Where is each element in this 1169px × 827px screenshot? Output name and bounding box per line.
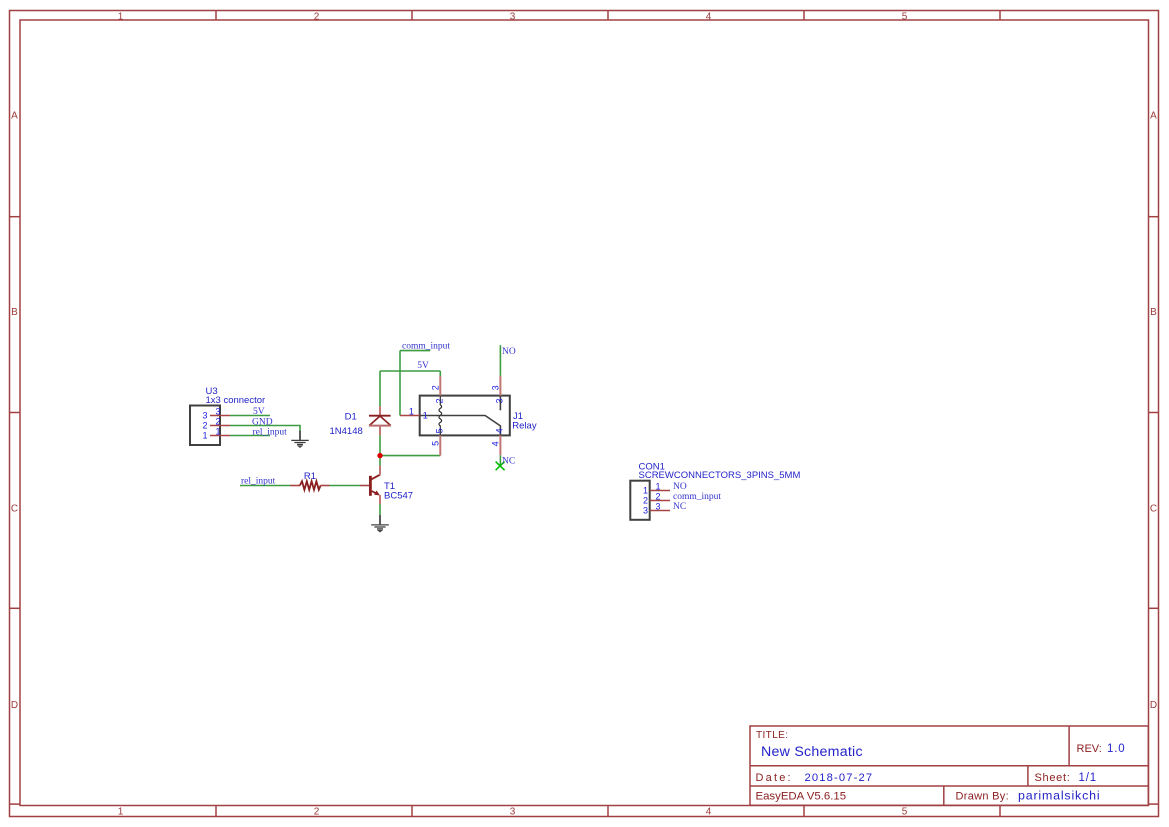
svg-text:5V: 5V — [417, 361, 429, 371]
U3 pin 3 — [210, 415, 230, 417]
svg-text:NO: NO — [502, 347, 516, 357]
J1 pin 5 — [439, 435, 441, 455]
connector U3 — [190, 386, 265, 445]
svg-text:EasyEDA V5.6.15: EasyEDA V5.6.15 — [756, 791, 847, 803]
svg-text:5V: 5V — [253, 407, 265, 417]
wire junction to relay pin 5 — [380, 455, 440, 457]
svg-text:parimalsikchi: parimalsikchi — [1018, 789, 1100, 803]
svg-text:GND: GND — [252, 417, 273, 427]
wire T1 collector to junction — [379, 456, 381, 466]
svg-text:comm_input: comm_input — [673, 492, 721, 502]
svg-text:5: 5 — [902, 12, 908, 23]
svg-text:D: D — [11, 700, 18, 711]
svg-text:3: 3 — [215, 407, 220, 417]
J1 pin 1 — [400, 415, 420, 417]
J1 switch arm — [420, 416, 501, 436]
svg-text:1: 1 — [409, 407, 414, 417]
resistor R1 — [290, 471, 330, 490]
D1 cathode pin — [379, 406, 381, 416]
svg-text:3: 3 — [510, 807, 516, 818]
svg-text:R1: R1 — [304, 471, 316, 482]
svg-text:A: A — [11, 111, 18, 122]
J1 pin 4 — [499, 435, 501, 455]
wire rel_input from U3 pin 1 — [230, 435, 270, 437]
svg-text:1x3 connector: 1x3 connector — [206, 395, 266, 406]
U3 box — [190, 406, 220, 446]
J1 pin 3 — [499, 376, 501, 396]
wire rel_input to R1 — [240, 485, 290, 487]
svg-text:3: 3 — [643, 506, 648, 516]
svg-text:1: 1 — [215, 427, 220, 437]
svg-text:D: D — [1150, 700, 1157, 711]
svg-text:2: 2 — [430, 385, 440, 390]
svg-text:4: 4 — [706, 12, 712, 23]
T1 collector diagonal — [371, 475, 380, 480]
svg-text:1: 1 — [202, 431, 207, 441]
node junction — [377, 453, 382, 458]
svg-text:3: 3 — [495, 398, 505, 403]
svg-text:comm_input: comm_input — [402, 342, 450, 352]
svg-text:B: B — [1150, 307, 1157, 318]
T1 base pin — [360, 485, 369, 487]
svg-text:B: B — [11, 307, 18, 318]
diode D1 — [330, 406, 391, 437]
svg-text:1: 1 — [655, 482, 660, 492]
U3 pin 1 — [210, 435, 230, 437]
svg-text:5: 5 — [902, 807, 908, 818]
svg-text:3: 3 — [491, 385, 501, 390]
svg-text:3: 3 — [510, 12, 516, 23]
wire T1 emitter to ground — [379, 504, 381, 515]
svg-text:1N4148: 1N4148 — [330, 426, 363, 437]
CON1 pin 2 — [650, 500, 670, 502]
svg-text:2: 2 — [655, 492, 660, 502]
svg-text:5: 5 — [431, 441, 441, 446]
svg-text:1: 1 — [423, 411, 428, 421]
wire GND from U3 pin 2 — [230, 426, 300, 432]
relay J1 — [400, 376, 537, 456]
svg-text:NC: NC — [673, 502, 686, 512]
wire diode bottom to junction — [379, 435, 381, 455]
svg-text:rel_input: rel_input — [253, 427, 288, 437]
svg-text:2: 2 — [314, 12, 320, 23]
svg-text:2018-07-27: 2018-07-27 — [805, 772, 874, 784]
T1 emitter diagonal — [372, 491, 379, 495]
svg-text:Drawn By:: Drawn By: — [956, 791, 1009, 803]
CON1 pin 1 — [650, 490, 670, 492]
wire NO to relay pin 3 — [499, 345, 501, 376]
transistor T1 — [360, 465, 413, 504]
R1 zigzag — [300, 481, 321, 490]
J1 box — [420, 396, 510, 436]
svg-text:New Schematic: New Schematic — [761, 744, 863, 760]
svg-text:SCREWCONNECTORS_3PINS_5MM: SCREWCONNECTORS_3PINS_5MM — [639, 470, 801, 481]
R1 lead right — [320, 485, 329, 487]
svg-text:5: 5 — [435, 428, 445, 433]
svg-text:C: C — [11, 504, 18, 515]
T1 base bar — [369, 476, 372, 496]
J1 pin 3 inner stub — [499, 396, 501, 411]
svg-text:REV:: REV: — [1077, 743, 1102, 755]
svg-text:1: 1 — [643, 486, 648, 496]
svg-text:2: 2 — [314, 807, 320, 818]
svg-text:1.0: 1.0 — [1107, 743, 1125, 755]
J1 pin 2 — [439, 376, 441, 396]
svg-text:1: 1 — [118, 12, 124, 23]
svg-text:2: 2 — [202, 421, 207, 431]
svg-text:3: 3 — [202, 411, 207, 421]
svg-text:3: 3 — [655, 502, 660, 512]
D1 triangle — [369, 416, 391, 426]
T1 emitter pin — [379, 495, 381, 504]
wire relay pin 4 to NC — [499, 455, 501, 466]
ground symbol near U3 — [291, 431, 309, 448]
svg-text:A: A — [1150, 111, 1157, 122]
svg-text:C: C — [1150, 504, 1157, 515]
D1 anode pin — [379, 426, 381, 436]
wire 5V horizontal — [380, 370, 440, 372]
wire comm_input horizontal — [400, 350, 430, 352]
svg-text:Relay: Relay — [512, 421, 537, 432]
no-connect flag NC — [496, 462, 505, 471]
wire 5V to relay pin 2 — [439, 371, 441, 376]
svg-text:Sheet:: Sheet: — [1035, 772, 1071, 784]
wire diode top riser — [379, 371, 381, 406]
svg-text:4: 4 — [490, 441, 500, 446]
svg-text:1: 1 — [118, 807, 124, 818]
svg-text:Date:: Date: — [756, 772, 793, 784]
svg-text:rel_input: rel_input — [241, 476, 276, 486]
svg-text:BC547: BC547 — [384, 490, 413, 501]
T1 emitter arrow — [374, 491, 380, 496]
svg-text:4: 4 — [495, 428, 505, 433]
title block — [750, 726, 1148, 805]
T1 collector pin — [379, 465, 381, 474]
svg-text:NC: NC — [502, 457, 515, 467]
wire comm_input vertical to relay pin 1 — [399, 351, 401, 416]
svg-text:TITLE:: TITLE: — [756, 730, 788, 741]
svg-text:2: 2 — [434, 398, 444, 403]
connector CON1 — [630, 462, 800, 520]
U3 pin 2 — [210, 425, 230, 427]
ground symbol under T1 — [371, 515, 389, 532]
J1 coil — [439, 396, 442, 436]
svg-text:2: 2 — [215, 417, 220, 427]
svg-text:D1: D1 — [345, 412, 357, 423]
svg-text:NO: NO — [673, 482, 687, 492]
svg-text:1/1: 1/1 — [1079, 772, 1098, 784]
svg-text:4: 4 — [706, 807, 712, 818]
R1 lead left — [290, 485, 300, 487]
D1 cathode bar — [369, 415, 391, 417]
svg-text:2: 2 — [643, 496, 648, 506]
CON1 box — [630, 481, 649, 520]
CON1 pin 3 — [650, 510, 670, 512]
wire 5V from U3 pin 3 — [230, 415, 270, 417]
wire R1 to T1 base — [330, 485, 361, 487]
